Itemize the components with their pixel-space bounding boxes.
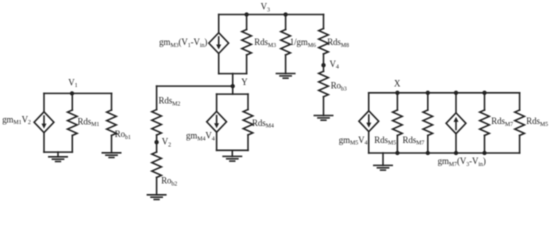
wire gm_M4 loop bottom rail (217, 149, 248, 151)
wire X rail to Rds_M7 right (484, 93, 486, 110)
wire X rail to gm_M7 source (455, 93, 457, 113)
wire gm_M7 bottom to rail (455, 134, 457, 153)
label Ro_b2 (161, 176, 177, 188)
wire gm_M3 bottom (218, 54, 220, 74)
wire gm_M4 loop top rail (217, 93, 248, 95)
node V4 junction dot (321, 63, 325, 67)
wire V3 to 1/gm_M6 top (285, 15, 287, 30)
wire Rds_M3 bottom to loop rail (246, 55, 248, 74)
wire gm_M4 bottom to loop rail (216, 132, 218, 150)
node V2 label (162, 137, 171, 149)
resistor Rds_M5 (left) (393, 110, 403, 135)
ground (under Ro_b3) (314, 116, 332, 121)
resistor Rds_M4 (243, 110, 253, 135)
ground (under gm_M4 loop) (223, 150, 241, 161)
wire Rds_M1 bottom to rail (71, 135, 73, 152)
resistor Rds_M2 (152, 110, 162, 135)
wire gm_M3 loop bottom rail (219, 73, 247, 75)
resistor Rds_M1 (68, 110, 78, 135)
resistor Rds_M7 (right) (480, 110, 490, 135)
current source gm_M7(V3-Vin) (diamond, up arrow) (446, 113, 466, 134)
current source gm_M3(V1-Vin) (diamond, down arrow) (209, 33, 229, 54)
wire Rds_M8 bottom to node V4 (323, 54, 325, 71)
node Y label (241, 77, 248, 87)
node X junction dot at Rds_M5 (395, 91, 399, 95)
resistor Ro_b1 (107, 110, 117, 135)
resistor 1/gm_M6 (281, 30, 291, 55)
ground (under Ro_b2) (147, 195, 165, 200)
label Rds_M4 (252, 118, 274, 130)
resistor Ro_b3 (319, 71, 329, 96)
wire gm_M1 source bottom to ground rail (43, 133, 45, 153)
node V1 top rail wire (44, 92, 112, 94)
label gm_M4 V4 (186, 131, 215, 143)
label Rds_M8 (327, 37, 349, 49)
label Rds_M5 right (526, 116, 548, 128)
wire Ro_b1 bottom to ground (111, 135, 113, 152)
wire loop top to Rds_M4 (247, 94, 249, 109)
ground (right group) (374, 153, 392, 170)
current source gm_M5*V4 (diamond, down arrow) (359, 111, 379, 132)
wire Rds_M7 to bottom rail (427, 135, 429, 153)
wire 1/gm_M6 bottom to ground (285, 55, 287, 74)
resistor Ro_b2 (152, 152, 162, 177)
ground (under 1/gm_M6) (276, 74, 294, 79)
node X junction dot at Rds_M7 right (482, 91, 486, 95)
wire left bottom rail (44, 151, 72, 153)
label Ro_b3 (331, 81, 347, 93)
wire Rds_M7 right to bottom rail (484, 135, 486, 153)
label gm_M5 V4 (339, 135, 368, 147)
junction dot bottom rail at Rds_M7 right (482, 151, 486, 155)
node V3 label (261, 2, 270, 14)
right group bottom rail wire (369, 152, 520, 154)
wire loop stem down to node Y (232, 74, 234, 95)
ground (under Ro_b1) (102, 153, 120, 158)
resistor Rds_M7 (left) (423, 110, 433, 135)
label gm_M3 (V1-Vin) (159, 37, 207, 49)
label Rds_M1 (78, 116, 100, 128)
wire Rds_M4 bottom to loop rail (247, 135, 249, 150)
wire loop top to gm_M4 source (216, 94, 218, 111)
node V1 label (68, 77, 77, 89)
wire Ro_b2 bottom to ground (156, 177, 158, 194)
wire V1 to Ro_b1 top (111, 93, 113, 110)
wire V3 to Rds_M8 top (323, 15, 325, 29)
node X junction dot at gm_M7 (454, 91, 458, 95)
junction dot bottom rail at Rds_M7 (426, 151, 430, 155)
label 1/gm_M6 (290, 37, 316, 49)
wire Rds_M2 bottom to node V2 (156, 135, 158, 152)
node V3 top rail wire (219, 14, 324, 16)
wire X rail to Rds_M7 (427, 93, 429, 110)
current source gm_M4*V4 (diamond, down arrow) (207, 111, 227, 132)
wire V1 to gm_M1 source top (43, 93, 45, 112)
label Rds_M7 right (491, 116, 513, 128)
wire gm_M5 bottom to rail (368, 132, 370, 153)
wire V3 to Rds_M3 top (246, 15, 248, 30)
label Ro_b1 (115, 129, 131, 141)
ground (left group) (49, 152, 67, 161)
node V3 junction dot at 1/gm_M6 (283, 12, 287, 16)
current source gm_M1*V2 (diamond, down arrow) (34, 112, 54, 133)
label Rds_M3 (254, 37, 276, 49)
wire node Y to Rds_M2 branch (157, 85, 233, 87)
node V3 junction dot at Rds_M3 (244, 12, 248, 16)
label gm_M7 (V3-Vin) (438, 156, 486, 168)
wire X rail to Rds_M5 right (519, 93, 521, 110)
junction dot bottom rail at gm_M7 (454, 151, 458, 155)
node V1 junction dot (70, 91, 74, 95)
wire X rail to gm_M5 source (368, 93, 370, 111)
label gm_M1 V2 (2, 114, 31, 126)
label Rds_M2 (159, 96, 181, 108)
label Rds_M7 left (403, 135, 425, 147)
junction dot bottom rail at Rds_M5 (395, 151, 399, 155)
resistor Rds_M5 (right) (515, 110, 525, 135)
wire V3 to gm_M3 source top (218, 15, 220, 33)
wire Y branch down to Rds_M2 (156, 86, 158, 110)
resistor Rds_M8 (319, 29, 329, 54)
wire V1 to Rds_M1 top (71, 93, 73, 110)
wire Ro_b3 bottom to ground (323, 97, 325, 116)
wire Rds_M5 right to bottom rail (519, 135, 521, 153)
node X top rail wire (369, 92, 520, 94)
wire Rds_M5 to bottom rail (396, 135, 398, 153)
node Y junction dot (231, 84, 235, 88)
resistor Rds_M3 (242, 30, 252, 55)
node V2 junction dot (154, 140, 158, 144)
label Rds_M5 left (374, 135, 396, 147)
node X label (394, 78, 401, 88)
node V4 label (330, 59, 339, 71)
wire X rail to Rds_M5 (396, 93, 398, 110)
svg-text:Y: Y (241, 77, 248, 87)
node X junction dot at Rds_M7 (426, 91, 430, 95)
svg-text:X: X (394, 78, 401, 88)
